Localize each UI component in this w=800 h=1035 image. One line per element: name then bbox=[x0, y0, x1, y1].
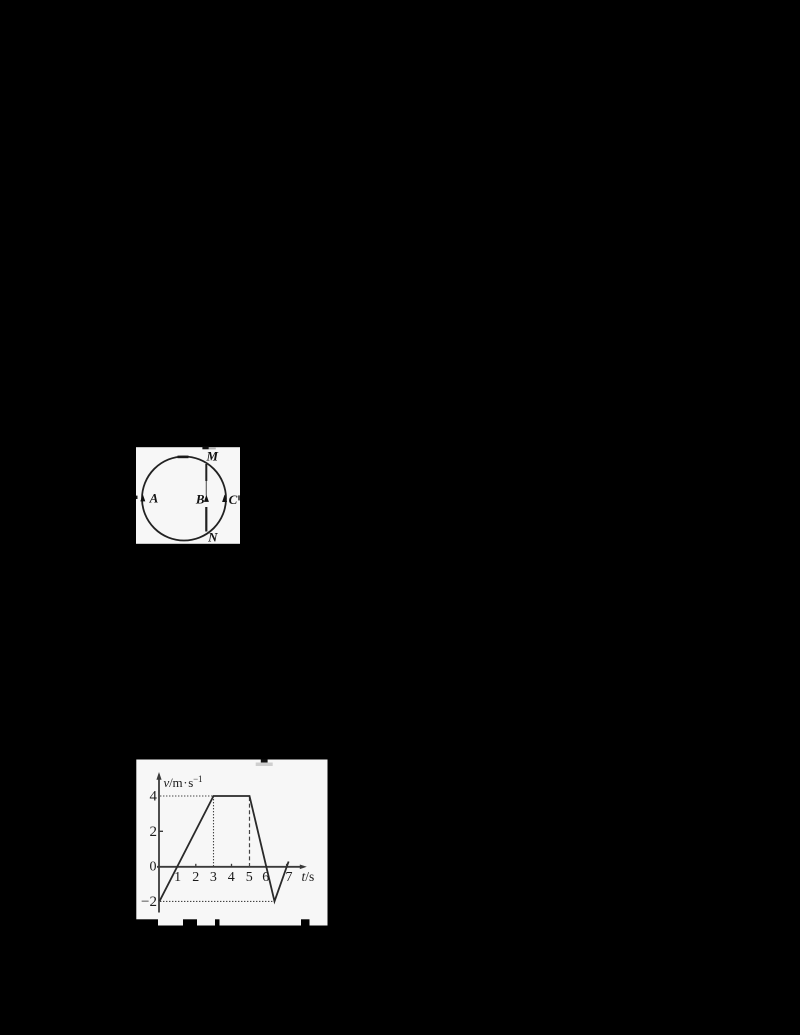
tick at v=2 bbox=[159, 830, 163, 832]
figure 1 white panel bbox=[136, 447, 240, 544]
svg-text:6: 6 bbox=[262, 870, 269, 885]
fig2 bottom teeth bbox=[158, 918, 183, 926]
dashed vertical t=5 bbox=[249, 797, 251, 867]
svg-text:2: 2 bbox=[150, 824, 158, 840]
svg-text:B: B bbox=[195, 491, 205, 506]
svg-text:7: 7 bbox=[286, 870, 293, 885]
chord MN middle thin segment bbox=[205, 481, 207, 496]
y axis arrowhead bbox=[156, 772, 161, 780]
tick at t=7 bbox=[286, 864, 288, 867]
svg-text:A: A bbox=[149, 491, 159, 506]
svg-text:0: 0 bbox=[150, 860, 157, 875]
right edge bar fig1 bbox=[238, 495, 239, 500]
thick dash at circle top bbox=[178, 456, 189, 459]
fig1 top-edge scan notch bbox=[202, 447, 208, 450]
arrow at C (up, on right of circle) bbox=[222, 494, 227, 502]
dotted line v=-2 bbox=[160, 900, 275, 902]
svg-text:C: C bbox=[229, 492, 238, 507]
svg-text:4: 4 bbox=[228, 870, 235, 885]
y axis bbox=[158, 775, 160, 913]
svg-text:1: 1 bbox=[174, 870, 181, 885]
svg-text:t/s: t/s bbox=[302, 869, 315, 884]
svg-text:−2: −2 bbox=[141, 894, 157, 910]
tick at t=4 bbox=[231, 864, 233, 867]
svg-text:5: 5 bbox=[246, 870, 253, 885]
left edge tick fig1 bbox=[136, 496, 138, 499]
dotted vertical t=3 bbox=[213, 796, 215, 867]
svg-text:2: 2 bbox=[192, 870, 199, 885]
arrow at A (up, on left of circle) bbox=[140, 494, 145, 501]
x axis bbox=[157, 866, 304, 868]
tick at t=2 bbox=[195, 864, 197, 867]
svg-text:3: 3 bbox=[210, 870, 217, 885]
dotted line v=4 bbox=[160, 795, 214, 797]
x axis arrowhead bbox=[300, 865, 307, 870]
svg-text:M: M bbox=[206, 449, 219, 464]
chord MN lower segment bbox=[205, 507, 207, 532]
arrow at B (up) bbox=[204, 495, 209, 502]
v-t curve bbox=[160, 796, 289, 901]
chord MN upper segment bbox=[205, 464, 207, 481]
svg-text:4: 4 bbox=[150, 788, 158, 804]
svg-text:N: N bbox=[207, 530, 218, 545]
fig2 top-edge scan notch bbox=[261, 760, 268, 763]
figure 2 white panel bbox=[136, 760, 327, 920]
circle O bbox=[142, 457, 226, 541]
